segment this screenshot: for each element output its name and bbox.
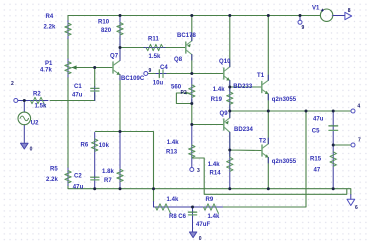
svg-text:C4: C4 <box>160 65 168 71</box>
capacitor C5 <box>329 112 338 145</box>
wire Q7 base / P1 wiper <box>74 68 112 101</box>
svg-text:1.5k: 1.5k <box>149 54 161 60</box>
resistor R13 <box>189 126 195 168</box>
capacitor C4 <box>156 70 166 78</box>
svg-text:R10: R10 <box>98 20 110 26</box>
wire NFB column and R8/R9 line <box>95 111 306 207</box>
resistor R10 <box>117 17 123 47</box>
svg-text:C1: C1 <box>74 84 82 90</box>
capacitor C1 <box>91 87 99 101</box>
ground below U2 <box>21 143 29 149</box>
svg-text:1.4k: 1.4k <box>208 214 220 220</box>
port bubble 7 <box>351 143 355 147</box>
port bubble 2 input <box>14 99 18 103</box>
wire T2 emitter to ground bus <box>267 158 269 189</box>
svg-text:10u: 10u <box>153 80 164 86</box>
wire Q9 emitter to rail <box>229 111 231 118</box>
wire Q10 emitter / T1 base / R19 <box>230 81 261 112</box>
resistor R5 <box>65 168 71 186</box>
svg-text:V1: V1 <box>312 5 320 11</box>
svg-text:47: 47 <box>314 167 321 173</box>
resistor R19 <box>227 88 233 111</box>
svg-text:0: 0 <box>30 146 33 152</box>
wire T1 emitter to output rail <box>267 94 269 111</box>
wire rail to V1 <box>300 15 321 17</box>
potentiometer P1 <box>65 59 77 77</box>
wire top supply rail <box>68 16 321 21</box>
wire feedback line2 from R13 bottom to right <box>192 158 347 194</box>
transistor T2 q2n3055 <box>262 138 268 163</box>
port bubble 9 at C4 <box>144 72 148 76</box>
wire Q9 collector / T2 base / R14 top <box>230 132 262 157</box>
svg-text:R4: R4 <box>46 14 54 20</box>
svg-text:2.2k: 2.2k <box>44 25 56 31</box>
port arrow 6 down <box>350 195 352 200</box>
capacitor C6 <box>188 207 196 232</box>
svg-text:6: 6 <box>355 205 358 211</box>
svg-text:R5: R5 <box>50 166 58 172</box>
svg-text:R7: R7 <box>104 178 112 184</box>
capacitor C2 <box>91 176 99 189</box>
svg-text:R19: R19 <box>211 97 223 103</box>
wire P2 wiper elbow <box>176 93 223 125</box>
svg-text:Q8: Q8 <box>174 57 183 63</box>
resistor R15 <box>330 146 336 189</box>
svg-text:R2: R2 <box>33 92 41 98</box>
svg-text:BC178: BC178 <box>177 33 197 39</box>
wire port7 branch <box>333 144 351 146</box>
wire input line <box>50 100 95 102</box>
svg-text:47u: 47u <box>73 184 84 190</box>
svg-text:7: 7 <box>358 137 361 143</box>
resistor R8 <box>156 204 193 214</box>
svg-text:4.7k: 4.7k <box>40 68 52 74</box>
resistor R14 <box>227 151 233 189</box>
wire Q10 collector to rail <box>229 16 231 67</box>
resistor R11 <box>144 44 165 50</box>
svg-text:2: 2 <box>11 81 14 87</box>
svg-text:R11: R11 <box>148 37 159 43</box>
transistor Q10 BD233 <box>224 62 230 86</box>
wire T1 collector to rail <box>267 16 269 81</box>
port bubble 4 output <box>351 109 355 113</box>
svg-text:R6: R6 <box>81 142 89 148</box>
wire bottom ground bus <box>68 186 351 195</box>
resistor R4 <box>65 21 71 39</box>
transistor T1 q2n3055 <box>262 75 269 100</box>
svg-text:1.8k: 1.8k <box>102 169 114 175</box>
svg-text:P2: P2 <box>181 90 187 96</box>
svg-text:1.5k: 1.5k <box>35 104 47 110</box>
port bubble 3 <box>190 168 194 172</box>
svg-text:R8: R8 <box>169 214 177 220</box>
svg-text:1.4k: 1.4k <box>213 87 225 93</box>
svg-text:10k: 10k <box>99 143 110 149</box>
port arrow 8 <box>345 12 352 19</box>
resistor R7 <box>117 133 123 189</box>
svg-text:1.4k: 1.4k <box>167 140 179 146</box>
svg-text:Q9: Q9 <box>220 111 229 117</box>
svg-text:9: 9 <box>302 25 305 31</box>
svg-text:C6: C6 <box>178 214 186 220</box>
svg-text:47u: 47u <box>72 93 83 99</box>
svg-text:C5: C5 <box>312 128 320 134</box>
junction dots <box>119 14 122 17</box>
svg-text:47u: 47u <box>313 117 324 123</box>
svg-text:8: 8 <box>348 8 351 14</box>
resistor R2 <box>18 97 48 107</box>
voltage source V1 <box>320 9 344 21</box>
svg-text:T1: T1 <box>257 73 265 79</box>
svg-text:9: 9 <box>149 68 152 74</box>
svg-text:P1: P1 <box>45 61 53 67</box>
svg-text:q2n3055: q2n3055 <box>272 159 297 165</box>
transistor Q9 BD234 <box>224 112 230 151</box>
svg-text:Q7: Q7 <box>110 54 119 60</box>
svg-text:3: 3 <box>197 168 200 174</box>
svg-text:Q10: Q10 <box>219 59 231 65</box>
svg-text:4: 4 <box>357 103 360 109</box>
svg-text:820: 820 <box>101 28 112 34</box>
svg-text:U2: U2 <box>31 121 39 127</box>
potentiometer P2 <box>186 78 195 104</box>
svg-text:R13: R13 <box>166 149 178 155</box>
svg-text:1.4k: 1.4k <box>208 162 220 168</box>
transistor Q8 BC178 <box>186 34 192 60</box>
ground below C6 <box>189 232 196 238</box>
svg-text:2.2k: 2.2k <box>46 177 58 183</box>
svg-text:R15: R15 <box>310 156 322 162</box>
svg-text:47uF: 47uF <box>196 222 210 228</box>
svg-text:C2: C2 <box>74 173 82 179</box>
svg-text:T2: T2 <box>259 138 267 144</box>
svg-text:R9: R9 <box>206 197 214 203</box>
wire T2 collector to output rail <box>267 111 269 144</box>
svg-text:BD234: BD234 <box>234 127 254 133</box>
svg-text:BC109C: BC109C <box>121 76 145 82</box>
wire R4-P1-R5 column <box>67 39 69 169</box>
svg-text:0: 0 <box>199 236 202 242</box>
wire C4 to Q10 base <box>148 73 223 75</box>
resistor R9 <box>193 204 223 214</box>
wire Q8 emitter/collector column <box>191 16 193 74</box>
transistor Q7 BC109C <box>113 48 120 80</box>
sine source U2 <box>18 101 31 143</box>
port bubble 9 top <box>298 16 302 25</box>
resistor R6 <box>91 133 97 177</box>
svg-text:q2n3055: q2n3055 <box>272 97 297 103</box>
wire output rail <box>230 110 351 112</box>
svg-text:BD233: BD233 <box>233 84 253 90</box>
svg-text:1.4k: 1.4k <box>167 197 179 203</box>
wire Q7 collector and emitter column <box>120 36 185 132</box>
svg-text:R14: R14 <box>210 170 222 176</box>
